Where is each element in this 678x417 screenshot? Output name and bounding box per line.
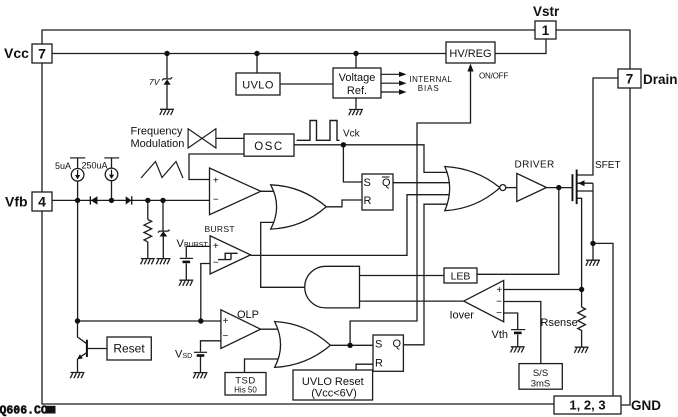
transistor Q1 emitter with arrow — [80, 353, 87, 358]
wire PWM comparator output to OR1 — [261, 190, 277, 192]
zener D4 feedback clamp — [160, 231, 168, 236]
ground VBURST battery — [179, 280, 193, 286]
svg-text:Modulation: Modulation — [131, 138, 185, 150]
block HV/REG — [446, 42, 495, 63]
resistor Rsense — [578, 307, 586, 332]
svg-text:Vck: Vck — [343, 129, 361, 140]
block OSC — [244, 134, 294, 156]
svg-text:Ref.: Ref. — [347, 85, 367, 97]
wire FF2 Q to NOR input 4 — [403, 204, 452, 345]
wire AND output to OR1 lower input — [261, 222, 305, 287]
label FF1 Qbar overline — [382, 176, 390, 178]
arrow internal bias 2 — [381, 81, 407, 86]
battery VBURST — [180, 257, 193, 259]
ground feedback zener — [156, 259, 170, 265]
wire SFET drain to Drain pin — [578, 78, 619, 175]
wire left border Vcc to Vfb — [41, 63, 43, 192]
node Vfb-250uA junction — [109, 198, 114, 203]
svg-text:S/S: S/S — [533, 368, 548, 379]
svg-text:Vcc: Vcc — [4, 45, 29, 61]
svg-text:SFET: SFET — [595, 160, 621, 171]
block UVLO Reset — [293, 370, 373, 400]
ground feedback resistor — [141, 259, 155, 265]
waveform clock pulses — [297, 121, 340, 141]
current source I2 250uA circle — [105, 168, 118, 181]
waveform sawtooth — [141, 162, 183, 179]
svg-text:+: + — [496, 285, 502, 296]
wire Iover plus to Rsense node — [504, 289, 582, 291]
transistor Q1 base bar — [86, 340, 88, 357]
svg-text:S: S — [364, 177, 371, 189]
block LEB — [444, 268, 477, 283]
zener D3 7V — [164, 79, 171, 84]
svg-text:SD: SD — [183, 353, 193, 360]
svg-text:7V: 7V — [149, 77, 161, 87]
op-amp U1 PWM comparator — [210, 168, 261, 215]
wire feedback zener stems — [162, 200, 164, 258]
ground zener 7V — [160, 109, 174, 115]
svg-text:3mS: 3mS — [531, 379, 551, 390]
svg-text:+: + — [223, 316, 229, 327]
arrow internal bias 3 — [381, 89, 407, 94]
wire gate node down to LEB — [477, 188, 559, 275]
buffer U9 DRIVER triangle — [517, 173, 547, 201]
wire UVLO stem — [256, 54, 258, 74]
wire source node ground stem — [592, 243, 594, 260]
wire driver output to gate — [547, 187, 572, 189]
op-amp U6 BURST comparator — [210, 236, 251, 274]
svg-text:S: S — [375, 339, 382, 351]
battery VSD — [194, 351, 207, 353]
wire transistor base to Reset box — [87, 348, 107, 350]
node Vfb-5uA junction — [75, 198, 80, 203]
svg-text:−: − — [213, 194, 219, 205]
wire 250uA source stems — [111, 158, 113, 201]
node latch S / ON-OFF junction — [347, 343, 352, 348]
svg-text:+: + — [213, 175, 219, 186]
wire 5uA source stems — [77, 158, 79, 201]
node Vck junction — [341, 142, 346, 147]
block TSD — [225, 373, 266, 396]
resistor R1 feedback — [144, 220, 152, 242]
watermark Q606.COM — [0, 404, 56, 417]
op-amp U8 Iover comparator (left pointing) — [464, 280, 504, 321]
svg-text:HV/REG: HV/REG — [449, 48, 491, 60]
op-amp U7 OLP comparator — [221, 310, 261, 349]
nor-gate U3 output bubble — [500, 185, 506, 191]
wire OSC output Vck to NOR input 1 — [294, 145, 453, 173]
ground Rsense — [574, 347, 588, 353]
wire LEB to AND input 1 — [360, 275, 445, 277]
wire BURST minus down to OLP plus line — [201, 264, 210, 322]
svg-text:Q: Q — [393, 338, 402, 350]
wire Iover minus2 to Vth battery — [504, 313, 518, 347]
wire Vfb feedback line — [52, 199, 210, 201]
node gate drive junction — [556, 185, 561, 190]
wire FF1 Qbar to NOR input 2 — [393, 182, 454, 184]
wire OR2 output to FF2 S — [331, 344, 374, 346]
wire 7V zener stem — [166, 54, 168, 110]
ground Vth battery — [511, 347, 525, 353]
symbol BURST hysteresis — [218, 253, 238, 259]
mosfet SFET channel bar — [576, 170, 578, 205]
svg-text:His 50: His 50 — [234, 386, 257, 395]
flip-flop FF2 — [373, 335, 403, 371]
svg-text:−: − — [222, 331, 228, 342]
current source I2 top bar — [104, 157, 119, 159]
node OLP line left junction — [75, 318, 80, 323]
node BURST-OLP junction — [198, 318, 203, 323]
wire UVLO to Voltage Ref — [280, 83, 333, 85]
wire top border Vcc to right edge — [42, 30, 630, 69]
ground source node — [586, 260, 600, 266]
svg-text:1: 1 — [542, 23, 550, 38]
svg-text:INTERNAL: INTERNAL — [410, 75, 453, 84]
wire OR1 output to FF1 R — [326, 200, 362, 207]
transistor Q1 collector — [78, 337, 87, 344]
pin box Vfb 4 — [32, 192, 52, 211]
wire right border below Drain to GND box — [621, 88, 630, 405]
wire bowtie to OSC — [216, 137, 244, 139]
svg-text:Reset: Reset — [113, 342, 145, 356]
wire source node to GND pins — [593, 243, 613, 396]
current source I1 arrow — [75, 170, 80, 179]
svg-text:Vth: Vth — [492, 329, 509, 341]
wire Voltage Ref stem and ground stem — [355, 54, 357, 110]
battery Vth — [511, 329, 525, 331]
svg-text:Q: Q — [382, 177, 391, 189]
svg-text:Vfb: Vfb — [5, 194, 28, 210]
svg-text:Frequency: Frequency — [131, 126, 183, 138]
svg-text:Q606.CO: Q606.CO — [0, 404, 48, 417]
svg-text:BIAS: BIAS — [418, 84, 440, 93]
wire Iover output to AND input 2 — [360, 300, 464, 302]
wire TSD to OR2 input — [245, 359, 279, 372]
mosfet SFET gate bar — [572, 174, 574, 201]
wire OLP output to OR2 — [261, 328, 279, 330]
wire OLP line to transistor collector — [77, 321, 79, 338]
wire OLP minus to VSD battery — [201, 341, 221, 373]
svg-text:7: 7 — [626, 72, 634, 87]
or-gate U2 PWM/burst OR — [271, 185, 327, 229]
svg-text:1, 2, 3: 1, 2, 3 — [569, 398, 605, 413]
wire OLP plus line — [78, 320, 221, 322]
block S/S 3mS — [519, 364, 562, 390]
svg-text:−: − — [213, 258, 219, 269]
node Vcc-zener junction — [164, 51, 169, 56]
arrow internal bias 1 — [381, 72, 407, 77]
or-gate U5 OLP/TSD OR — [275, 322, 331, 368]
svg-text:UVLO Reset: UVLO Reset — [302, 376, 364, 388]
wire ON/OFF from latch node to HV/REG — [350, 69, 470, 345]
wire Iover minus1 to S/S block — [504, 302, 541, 364]
wire Vfb node down to OLP line — [77, 200, 79, 321]
block Reset — [107, 337, 151, 360]
block Voltage Ref — [333, 68, 381, 98]
svg-text:Drain: Drain — [643, 72, 678, 87]
svg-text:Rsense: Rsense — [541, 317, 578, 329]
svg-text:ON/OFF: ON/OFF — [479, 72, 508, 81]
wire NOR output to driver — [506, 187, 517, 189]
svg-text:Iover: Iover — [450, 310, 475, 322]
svg-text:UVLO: UVLO — [242, 80, 274, 92]
current source I1 5uA circle — [71, 169, 84, 182]
ground VSD battery — [193, 373, 207, 379]
mosfet SFET body arrow — [578, 180, 585, 186]
current source I1 top bar — [70, 157, 85, 159]
node Vcc-VRef junction — [353, 51, 358, 56]
node Rsense-Iover junction — [579, 287, 584, 292]
svg-text:Vstr: Vstr — [533, 4, 560, 19]
wire transistor emitter ground stem — [77, 359, 79, 373]
diode D1 — [91, 196, 98, 204]
svg-text:−: − — [496, 296, 502, 307]
svg-text:250uA: 250uA — [82, 161, 108, 171]
wire left border Vfb to bottom rail into GND box — [42, 211, 554, 404]
nor-gate U3 main NOR — [445, 167, 500, 211]
and-gate U4 (left pointing) — [305, 266, 360, 308]
pin box GND 1,2,3 — [554, 396, 621, 414]
svg-text:−: − — [496, 308, 502, 319]
flip-flop FF1 — [362, 174, 393, 210]
svg-text:BURST: BURST — [184, 242, 208, 249]
wire VBURST battery to BURST plus — [186, 246, 210, 280]
pin box Vstr 1 — [535, 21, 556, 39]
wire feedback resistor stems — [147, 200, 149, 258]
svg-text:4: 4 — [38, 194, 46, 210]
ground Voltage Ref — [349, 110, 363, 116]
svg-text:OLP: OLP — [237, 309, 259, 321]
diode D2 — [126, 196, 132, 204]
wire Vck to FF1 S input — [343, 145, 362, 182]
svg-text:LEB: LEB — [451, 271, 471, 283]
pin box Vcc 7 — [32, 44, 52, 63]
pin box Drain 7 — [618, 69, 641, 88]
symbol frequency modulation bowtie — [188, 129, 216, 148]
wire UVLO Reset to FF2 R — [356, 364, 373, 370]
svg-text:(Vcc<6V): (Vcc<6V) — [311, 388, 357, 400]
svg-text:+: + — [213, 241, 219, 252]
svg-text:GND: GND — [631, 398, 661, 413]
node Vfb-resistor junction — [145, 198, 150, 203]
block UVLO — [236, 73, 280, 95]
wire SFET body and source tie — [578, 183, 594, 243]
svg-text:Voltage: Voltage — [339, 72, 376, 84]
node Vcc-UVLO junction — [254, 51, 259, 56]
node Vfb-zener junction — [160, 198, 165, 203]
svg-text:R: R — [364, 195, 372, 207]
wire BURST comparator output to NOR input 3 — [251, 195, 454, 256]
svg-text:BURST: BURST — [205, 224, 235, 234]
current source I2 arrow — [109, 170, 114, 179]
svg-text:R: R — [375, 358, 383, 370]
wire Vcc rail — [52, 53, 446, 55]
node source-ground junction — [590, 241, 595, 246]
wire Vstr to HV/REG — [495, 39, 546, 54]
svg-text:7: 7 — [38, 46, 46, 62]
svg-text:DRIVER: DRIVER — [515, 160, 555, 171]
wire SFET source to Rsense — [578, 198, 582, 347]
svg-text:5uA: 5uA — [55, 161, 71, 171]
arrow ON/OFF head — [467, 64, 473, 72]
ground transistor emitter — [70, 373, 84, 379]
svg-text:OSC: OSC — [254, 141, 283, 153]
wire OSC ramp to PWM comparator plus — [189, 154, 244, 180]
